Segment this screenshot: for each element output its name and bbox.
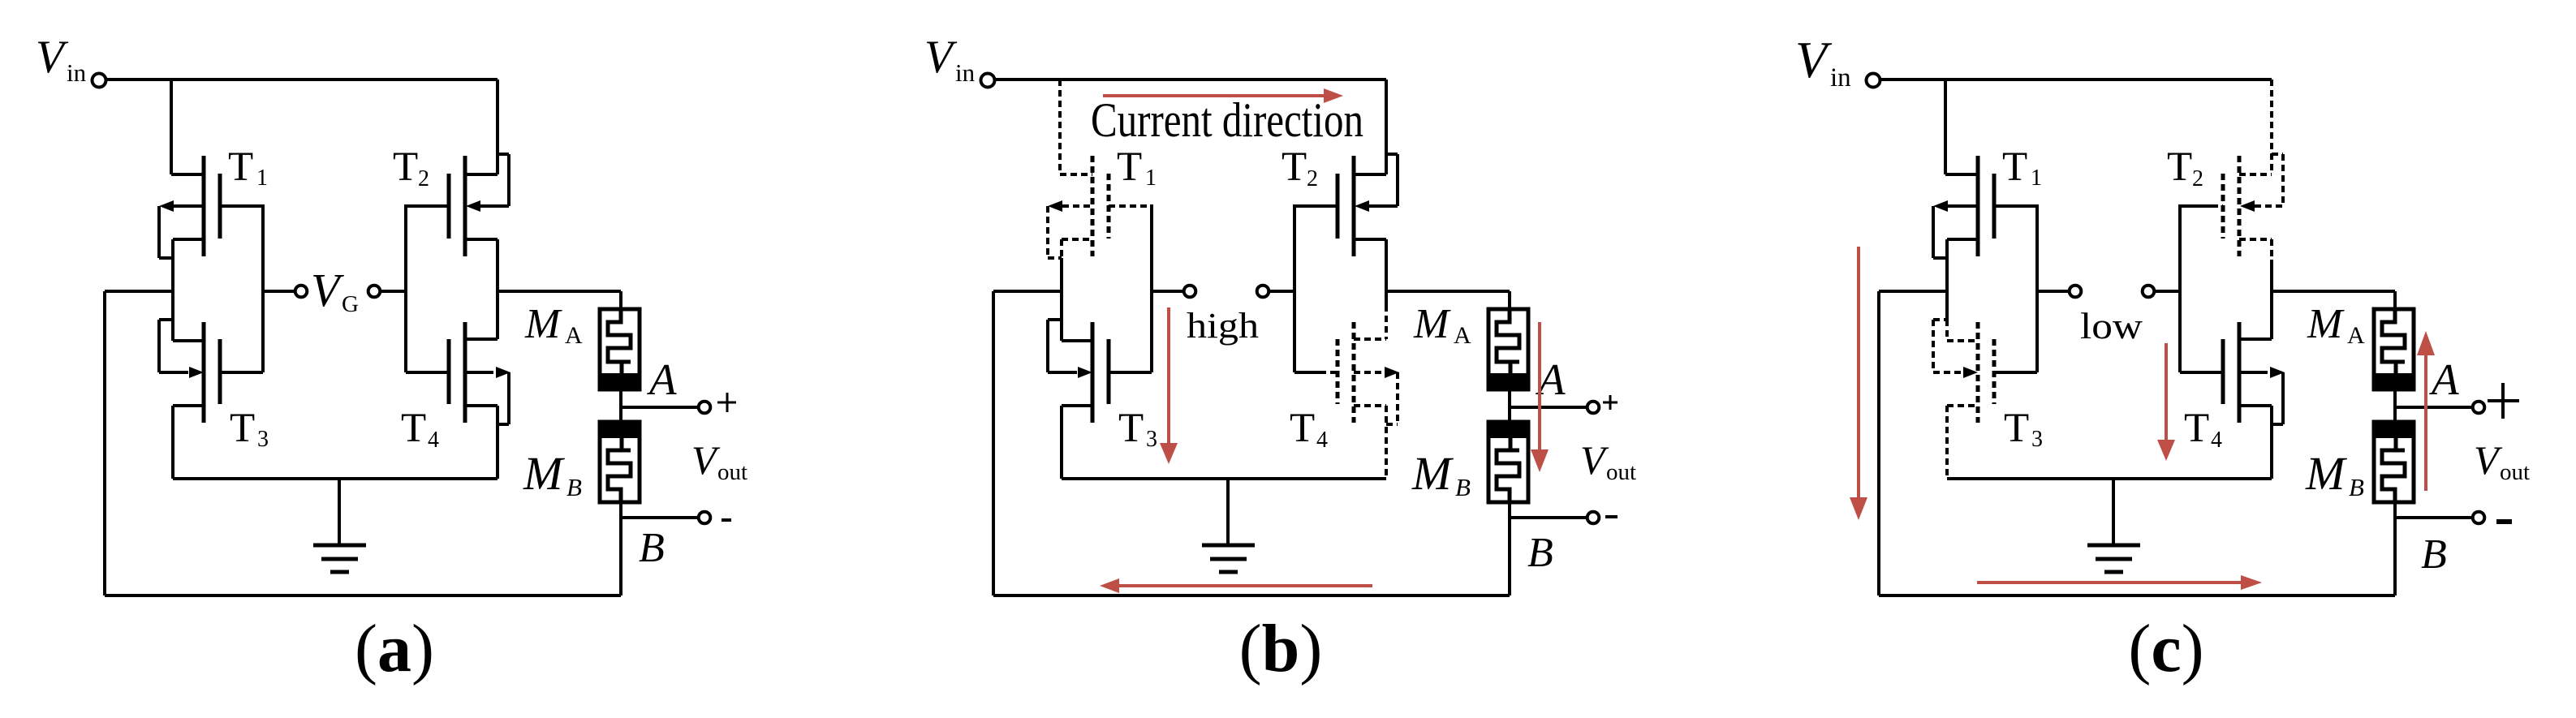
svg-text:T: T: [2002, 144, 2027, 190]
wire T1 drain drop (c): [1944, 80, 1947, 174]
svg-text:4: 4: [2211, 428, 2222, 453]
wire left branch node (a): [171, 239, 174, 341]
node A wire (a): [621, 406, 697, 409]
svg-text:T: T: [1282, 144, 1307, 190]
memristor MB (c): [2374, 422, 2414, 502]
plus sign (a): [717, 402, 736, 404]
svg-text:B: B: [1527, 530, 1553, 576]
svg-text:4: 4: [428, 428, 439, 453]
wire T2 drain drop (b): [1385, 80, 1388, 174]
transistor T4 (b): [1354, 338, 1386, 341]
current arrow T4 (c): [2165, 343, 2168, 443]
current arrow top (b): [1103, 94, 1327, 97]
svg-text:T: T: [401, 406, 426, 451]
current arrow memristor (b): [1538, 322, 1541, 453]
terminal gate left (c): [2070, 286, 2082, 298]
wire right branch node (c): [2270, 239, 2273, 260]
wire feedback left (a): [105, 290, 173, 293]
memristor MA (c): [2393, 291, 2397, 322]
svg-text:T: T: [1118, 406, 1144, 451]
current arrow high (b): [1167, 307, 1170, 446]
wire MA-MB (c): [2393, 389, 2397, 422]
wire right branch node (b): [1385, 239, 1388, 305]
memristor MA (a): [619, 291, 622, 322]
svg-text:in: in: [1830, 63, 1851, 92]
svg-text:(c): (c): [2128, 611, 2203, 686]
transistor T4 (c): [2239, 338, 2272, 341]
wire MB to node B (a): [619, 489, 622, 595]
svg-text:T: T: [1290, 406, 1315, 451]
wire gate line right (b): [1270, 290, 1294, 293]
memristor MA (b): [1508, 291, 1511, 322]
terminal + (b): [1587, 402, 1600, 414]
terminal + (c): [2473, 402, 2485, 414]
memristor MB (b): [1488, 422, 1528, 502]
transistor T2 (c): [2239, 173, 2272, 176]
svg-text:(b): (b): [1239, 611, 1323, 686]
svg-text:2: 2: [418, 166, 429, 191]
svg-text:out: out: [717, 459, 747, 485]
node B wire (c): [2395, 516, 2471, 519]
minus sign (a): [722, 518, 731, 522]
transistor T3 (a): [159, 318, 173, 321]
svg-text:out: out: [1606, 459, 1636, 485]
transistor T2 (b): [1354, 173, 1386, 176]
wire MB to node B (b): [1508, 489, 1511, 595]
wire MB to node B (c): [2393, 489, 2397, 595]
svg-text:1: 1: [2031, 166, 2042, 191]
svg-text:B: B: [639, 525, 665, 571]
node A wire (b): [1510, 406, 1586, 409]
current arrow bottom (b): [1116, 584, 1372, 587]
ground (c): [2112, 479, 2115, 545]
transistor T4 (a): [465, 338, 498, 341]
wire Vin rail (a): [106, 78, 498, 81]
svg-text:T: T: [2167, 144, 2192, 190]
wire feedback bottom (c): [1879, 594, 2395, 597]
svg-text:low: low: [2080, 305, 2143, 346]
terminal gate right (b): [1257, 286, 1269, 298]
wire Vin rail (b): [995, 78, 1386, 81]
ground (a): [338, 479, 341, 545]
svg-text:T: T: [228, 144, 253, 190]
svg-text:T: T: [2184, 406, 2209, 451]
svg-text:2: 2: [2192, 166, 2203, 191]
wire Vin rail (c): [1880, 78, 2272, 81]
wire to MA (b): [1386, 290, 1510, 293]
terminal gate right (a): [368, 286, 381, 298]
svg-text:M: M: [523, 447, 565, 500]
svg-text:out: out: [2500, 459, 2530, 485]
current arrow left (c): [1857, 247, 1860, 501]
wire left branch node (c): [1945, 239, 1949, 320]
svg-text:2: 2: [1307, 166, 1318, 191]
node A wire (c): [2395, 406, 2471, 409]
svg-text:M: M: [1413, 301, 1451, 347]
terminal Vin (a): [93, 74, 106, 88]
terminal Vin (b): [981, 74, 995, 88]
node B wire (a): [621, 516, 697, 519]
current arrow bottom (c): [1977, 581, 2244, 584]
svg-text:A: A: [1454, 322, 1471, 349]
plus sign (c): [2488, 399, 2519, 402]
wire right branch node (a): [496, 239, 499, 339]
wire to MA (c): [2272, 290, 2395, 293]
svg-text:B: B: [2349, 473, 2364, 501]
terminal Vin (c): [1867, 74, 1880, 88]
wire MA-MB (b): [1508, 389, 1511, 422]
memristor MB (a): [600, 422, 640, 502]
terminal - (b): [1587, 512, 1600, 524]
svg-text:T: T: [393, 144, 418, 190]
transistor T3 (c): [1933, 318, 1947, 321]
minus sign (c): [2496, 519, 2512, 524]
current arrow memristor up (c): [2424, 352, 2427, 491]
minus sign (b): [1605, 515, 1618, 518]
svg-text:3: 3: [1146, 427, 1157, 452]
svg-text:M: M: [2307, 301, 2345, 347]
wire feedback bottom (b): [993, 594, 1510, 597]
wire gate line left (b): [1150, 204, 1153, 372]
svg-text:A: A: [565, 322, 583, 349]
svg-text:A: A: [646, 355, 677, 404]
wire MA-MB (a): [619, 389, 622, 422]
terminal gate left (b): [1184, 286, 1196, 298]
wire gate line right (c): [2156, 290, 2180, 293]
wire T2 drain drop (a): [496, 80, 499, 174]
wire gate line right (a): [381, 290, 406, 293]
svg-text:1: 1: [1145, 166, 1157, 191]
svg-text:B: B: [2421, 531, 2447, 578]
transistor T1 (c): [1945, 173, 1978, 176]
transistor T1 (a): [171, 173, 204, 176]
svg-text:M: M: [1411, 447, 1454, 500]
wire source rail (c): [1947, 477, 2272, 480]
terminal - (c): [2473, 512, 2485, 524]
svg-text:3: 3: [257, 427, 269, 452]
wire T1 drain drop (a): [170, 80, 173, 174]
svg-text:B: B: [566, 473, 582, 501]
terminal gate left (a): [295, 286, 308, 298]
transistor T2 (a): [465, 173, 498, 176]
svg-text:in: in: [67, 58, 87, 87]
svg-text:Current direction: Current direction: [1091, 93, 1363, 147]
svg-text:(a): (a): [355, 611, 434, 686]
plus sign (b): [1603, 402, 1618, 404]
svg-text:T: T: [2004, 406, 2029, 451]
transistor T1 (b): [1060, 173, 1092, 176]
node B wire (b): [1510, 516, 1586, 519]
wire gate line left (c): [2035, 204, 2039, 372]
wire feedback bottom (a): [105, 594, 621, 597]
wire T2 drain drop (c): [2270, 80, 2273, 174]
wire source rail (b): [1062, 477, 1386, 480]
svg-text:1: 1: [256, 166, 268, 191]
wire T1 drain drop (b): [1058, 80, 1062, 174]
svg-text:A: A: [2428, 355, 2459, 404]
svg-text:T: T: [1117, 144, 1142, 190]
wire left branch node (b): [1060, 258, 1063, 341]
terminal - (a): [699, 512, 711, 524]
terminal gate right (c): [2143, 286, 2155, 298]
svg-text:3: 3: [2031, 427, 2043, 452]
svg-text:A: A: [2347, 322, 2365, 349]
svg-text:G: G: [342, 291, 359, 317]
ground (b): [1226, 479, 1230, 545]
svg-text:high: high: [1187, 306, 1259, 346]
wire gate line left (a): [261, 204, 265, 372]
svg-text:B: B: [1455, 473, 1471, 501]
terminal + (a): [699, 402, 711, 414]
wire feedback left (c): [1879, 290, 1947, 293]
transistor T3 (b): [1048, 318, 1062, 321]
svg-text:M: M: [524, 301, 562, 347]
svg-text:M: M: [2305, 447, 2347, 500]
wire source rail (a): [173, 477, 498, 480]
wire feedback left (b): [993, 290, 1062, 293]
wire to MA (a): [498, 290, 621, 293]
svg-text:in: in: [955, 58, 976, 87]
svg-text:4: 4: [1316, 428, 1328, 453]
svg-text:T: T: [230, 406, 255, 451]
